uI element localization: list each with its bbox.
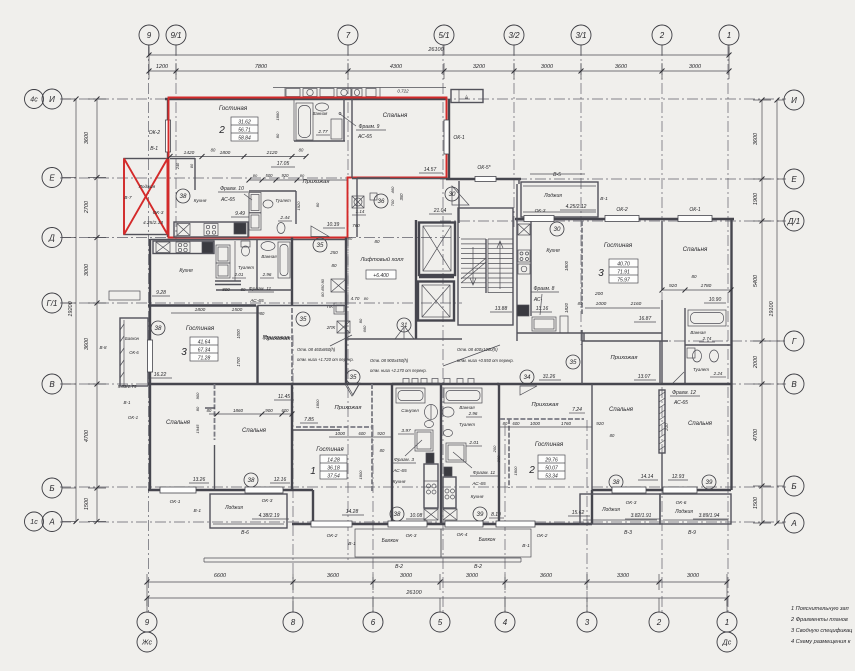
svg-text:80: 80 [300, 173, 305, 178]
svg-text:+6.400: +6.400 [373, 273, 389, 279]
svg-text:14.28: 14.28 [327, 458, 340, 464]
svg-text:200: 200 [594, 291, 603, 297]
double door swing at lift hall bottom [395, 327, 414, 339]
axis bubble Жс [137, 632, 157, 652]
svg-text:9.28: 9.28 [156, 290, 166, 296]
svg-text:38: 38 [180, 193, 187, 200]
leader Фрагм 9 АС-65 [340, 114, 356, 126]
wall below hall apartment 1 extension [292, 429, 340, 431]
cabinet Фрагм 8 at kitchen bottom [532, 317, 556, 331]
svg-text:1000: 1000 [335, 431, 346, 436]
window ОК-1 on Д/1 [678, 216, 712, 222]
svg-text:14.57: 14.57 [424, 167, 437, 173]
svg-text:30: 30 [449, 191, 456, 198]
svg-text:В-6: В-6 [241, 530, 249, 536]
svg-text:В-2: В-2 [395, 564, 403, 570]
svg-text:10.08: 10.08 [410, 513, 423, 519]
partition left of Гостиная 53.34 [508, 419, 510, 488]
svg-text:3/1: 3/1 [575, 31, 586, 40]
svg-text:Кухня: Кухня [194, 198, 207, 204]
svg-text:1860: 1860 [233, 408, 244, 413]
axis bubbles bottom: 9 8 6 5 4 3 2 1 [137, 612, 157, 632]
svg-text:3000: 3000 [541, 64, 554, 70]
svg-text:7.85: 7.85 [304, 417, 314, 423]
svg-text:4300: 4300 [390, 64, 403, 70]
bottom overall dimension line 26100 [147, 597, 727, 599]
svg-text:900: 900 [195, 392, 200, 399]
svg-text:3000: 3000 [84, 263, 90, 276]
apartment 3 bedrooms partition wall [214, 384, 216, 440]
svg-text:35: 35 [300, 316, 307, 323]
elevator shaft 2 with cross [418, 282, 454, 321]
svg-text:800: 800 [222, 287, 230, 292]
vent cross box left stack [424, 509, 438, 520]
dark sink box left stack [426, 453, 434, 463]
svg-text:3600: 3600 [540, 573, 553, 579]
door swing Туалет apartment 2 [311, 226, 329, 237]
svg-text:Фрагм. 11: Фрагм. 11 [249, 286, 272, 292]
svg-text:1: 1 [727, 31, 731, 40]
svg-text:Кухня: Кухня [546, 248, 560, 254]
svg-text:1 Пояснительную зап: 1 Пояснительную зап [791, 606, 849, 612]
svg-text:1200: 1200 [156, 64, 169, 70]
toilet room Туалет of apartment 2 [249, 190, 296, 192]
apartment 2 area table 31.62 56.71 58.84 [231, 117, 258, 141]
svg-text:3600: 3600 [84, 337, 90, 350]
lower ledge strip [204, 557, 521, 559]
svg-text:80: 80 [190, 163, 194, 168]
left segment dimension line 3600 2700 3000 3600 4700 1500 [96, 99, 98, 522]
svg-text:13.16: 13.16 [536, 306, 549, 312]
svg-text:Ванная: Ванная [690, 330, 706, 335]
balcony left Балкон В-8 [120, 318, 148, 386]
svg-text:АС-65: АС-65 [357, 134, 372, 140]
svg-text:80: 80 [211, 148, 216, 153]
stove in kitchen column [518, 250, 530, 262]
vent cross box right stack [443, 509, 457, 520]
axis grid vertical dash-dot lines [148, 45, 150, 612]
bubble 35 and leader [345, 384, 359, 396]
stairs room walls [458, 208, 513, 325]
left overall dimension line 19200 [75, 99, 77, 522]
axis grid horizontal dash-dot lines [60, 98, 786, 100]
svg-text:4.25/2.12: 4.25/2.12 [566, 204, 587, 210]
svg-text:В-5: В-5 [553, 172, 561, 178]
svg-text:1c: 1c [30, 519, 38, 526]
svg-text:14.14: 14.14 [641, 474, 654, 480]
area table 41.64 67.34 71.28 [190, 337, 218, 361]
bottom segment dimension line 6600 3600 3000 3000 3600 3300 3000 [147, 581, 727, 583]
area table 40.70 71.91 75.97 [609, 259, 638, 283]
svg-text:1800: 1800 [195, 307, 206, 313]
apartment 2 bottom (53.34) walls [498, 384, 500, 523]
svg-text:31: 31 [401, 322, 408, 329]
svg-text:Лифтовый холл: Лифтовый холл [359, 256, 404, 263]
axis bubbles left: 4c И Е Д Г/1 В Б А 1c [25, 90, 44, 109]
svg-text:600: 600 [359, 431, 367, 436]
axis bubble Дс [717, 632, 737, 652]
svg-text:2: 2 [656, 618, 662, 627]
windows on Б wall right bedrooms [612, 487, 646, 493]
svg-text:920: 920 [669, 283, 677, 289]
svg-text:В-7: В-7 [124, 195, 132, 200]
svg-text:14.28: 14.28 [346, 509, 359, 515]
vestibule walls right of apartment 2 [446, 178, 475, 180]
apartment 2 red contour [169, 98, 447, 238]
svg-text:9.49: 9.49 [235, 211, 245, 217]
svg-text:6: 6 [371, 618, 376, 627]
svg-text:2.77: 2.77 [317, 129, 328, 135]
svg-text:5400: 5400 [753, 274, 759, 287]
window ОК-1 on right wall of apartment 2 [448, 99, 450, 178]
bubble 36 and duct symbol [352, 196, 364, 208]
windows on Б wall left [160, 487, 196, 493]
svg-text:210: 210 [664, 423, 669, 432]
svg-text:37.54: 37.54 [327, 474, 340, 480]
svg-text:80: 80 [331, 263, 337, 268]
svg-text:ОК-3: ОК-3 [406, 533, 417, 539]
apartment 2 bathroom Ванная walls [293, 99, 295, 141]
svg-text:38: 38 [248, 477, 255, 484]
svg-text:2.01: 2.01 [234, 272, 244, 277]
bottom outer wall on axis Б right part [592, 489, 731, 491]
outer wall on axis Д/1 right section [515, 218, 734, 220]
loggia with red cross (Лоджия 4.25/2.13) [124, 159, 168, 235]
svg-text:58.84: 58.84 [238, 136, 251, 142]
svg-text:Кухня: Кухня [393, 479, 406, 485]
elevator hall left wall [415, 220, 417, 339]
svg-text:2.74: 2.74 [702, 336, 712, 341]
svg-text:отм. низа +0.550 от перекр.: отм. низа +0.550 от перекр. [457, 358, 514, 363]
windows on lower А wall [311, 521, 352, 527]
svg-text:2: 2 [528, 465, 535, 476]
window ОК-2 left outer wall [167, 99, 169, 237]
svg-text:Туалет: Туалет [238, 265, 254, 270]
stairs treads right flight [488, 238, 513, 240]
kitchen counter of apartment 2 along bottom [174, 222, 248, 237]
upper loggia Лоджия 4.25/2.12 right part [521, 182, 598, 217]
svg-text:80: 80 [260, 311, 265, 316]
kitchen counter apartment 3 [153, 241, 214, 254]
dim row 1800 1500 80 inside [171, 312, 260, 314]
apartment 3 bathroom walls [234, 241, 236, 281]
svg-text:Кухня: Кухня [471, 494, 484, 500]
svg-text:Туалет: Туалет [275, 198, 291, 203]
svg-text:3000: 3000 [466, 573, 479, 579]
svg-text:В-1: В-1 [522, 543, 530, 549]
apartment 3 kitchen row below red line [149, 239, 151, 490]
svg-text:ОК-5*: ОК-5* [477, 165, 491, 171]
right outer wall, axis 1 [730, 219, 732, 490]
svg-text:1920: 1920 [296, 201, 301, 211]
svg-text:Прихожая: Прихожая [264, 336, 291, 342]
svg-text:Г: Г [792, 337, 797, 346]
apartment 3 living room Гостиная [148, 304, 256, 306]
wall on axis В across [148, 383, 440, 385]
svg-text:56.71: 56.71 [238, 128, 251, 134]
svg-text:Санузел: Санузел [401, 408, 419, 413]
svg-text:отм. низа +2.170 от перекр.: отм. низа +2.170 от перекр. [370, 368, 427, 373]
svg-text:80: 80 [364, 296, 369, 301]
stairs diagonal break line [461, 258, 486, 279]
svg-text:1500: 1500 [232, 307, 243, 313]
svg-text:АС-65: АС-65 [220, 197, 235, 203]
svg-text:Гостиная: Гостиная [316, 447, 344, 453]
svg-text:Ванная: Ванная [261, 254, 277, 259]
svg-text:Ванная: Ванная [459, 405, 475, 410]
svg-text:1000: 1000 [236, 329, 241, 339]
outer wall on axis И (top wall apartment 2) [165, 98, 446, 100]
svg-text:1700: 1700 [236, 357, 241, 367]
interior dim row 80 500 920 80 above hallway [249, 179, 347, 181]
svg-text:9/1: 9/1 [170, 31, 181, 40]
svg-text:34: 34 [524, 374, 531, 381]
svg-text:ОК-6: ОК-6 [676, 500, 687, 506]
svg-text:1.14: 1.14 [356, 209, 365, 214]
svg-text:13.88: 13.88 [495, 306, 508, 312]
svg-text:80: 80 [374, 239, 380, 244]
vestibule wall at 21.04 [458, 181, 460, 223]
area table 14.28 36.18 37.54 [320, 455, 347, 479]
svg-text:ОК-1: ОК-1 [128, 415, 139, 420]
svg-text:И: И [791, 96, 797, 105]
svg-text:А: А [48, 517, 54, 526]
wall below living room right section [517, 332, 662, 334]
svg-text:80: 80 [610, 433, 615, 438]
svg-text:1880: 1880 [275, 111, 280, 121]
svg-text:ОК-3: ОК-3 [626, 500, 637, 506]
hall 13.07 bottom right section [581, 330, 583, 384]
balcony В-2 left of central band [355, 529, 441, 557]
svg-text:1800: 1800 [564, 260, 569, 271]
svg-text:2160: 2160 [630, 301, 642, 307]
svg-text:3: 3 [598, 268, 604, 279]
toilet apartment 3 [241, 241, 250, 247]
svg-text:2000: 2000 [753, 355, 759, 369]
apartment 1 (37.54) partitions [371, 384, 373, 492]
ledge above И right of axis 5/1 [451, 90, 483, 103]
svg-text:Фрагм. 12: Фрагм. 12 [672, 390, 696, 396]
svg-text:Спальня: Спальня [609, 407, 634, 413]
fridge cross apartment 2 [177, 224, 190, 236]
svg-text:Спальня: Спальня [688, 421, 713, 427]
svg-text:10.39: 10.39 [327, 222, 340, 228]
bathtub left stack [396, 388, 425, 403]
svg-text:39: 39 [706, 479, 713, 486]
svg-text:920: 920 [596, 421, 604, 426]
svg-text:4 Схему размещения к: 4 Схему размещения к [791, 639, 851, 645]
svg-text:4.25/2.13: 4.25/2.13 [143, 220, 163, 226]
svg-text:Балкон: Балкон [479, 537, 496, 543]
axis bubbles right [784, 90, 804, 110]
window ОК-2 on Д/1 [605, 216, 639, 222]
svg-text:8: 8 [291, 618, 296, 627]
svg-text:50.07: 50.07 [545, 466, 558, 472]
kitchen column left stack [424, 464, 438, 508]
svg-text:Гостиная: Гостиная [604, 242, 633, 249]
divider wall between stacks [440, 384, 442, 523]
svg-text:4700: 4700 [753, 428, 759, 441]
svg-text:4c: 4c [30, 97, 38, 104]
fridge cross top [518, 224, 530, 235]
svg-text:Прихожая: Прихожая [335, 405, 362, 411]
svg-text:В-1: В-1 [600, 196, 608, 202]
corridor walls center [347, 238, 349, 306]
svg-text:АС-65: АС-65 [392, 468, 407, 474]
svg-text:3000: 3000 [400, 573, 413, 579]
bathtub in Ванная [296, 103, 313, 140]
svg-text:11.45: 11.45 [278, 394, 290, 400]
stairs treads left flight [461, 238, 486, 240]
fridge cross apartment 3 [156, 242, 170, 253]
svg-text:Лоджия: Лоджия [543, 193, 562, 199]
svg-text:3000: 3000 [689, 64, 702, 70]
svg-text:29.76: 29.76 [544, 458, 558, 464]
svg-text:7800: 7800 [255, 64, 268, 70]
leader Фрагм 12 АС-65 [672, 372, 684, 384]
dim row 80 600 1000 1760 [500, 426, 592, 428]
svg-text:Гостиная: Гостиная [535, 441, 564, 448]
svg-text:36.18: 36.18 [327, 466, 340, 472]
svg-text:В-1: В-1 [348, 541, 356, 547]
svg-text:80: 80 [299, 148, 304, 153]
svg-text:1000: 1000 [530, 421, 541, 426]
svg-text:3 Сводную спецификац: 3 Сводную спецификац [791, 628, 852, 634]
balcony В-2 right of central band [441, 529, 531, 557]
hatched partition wall [659, 390, 665, 453]
svg-text:ОК-1: ОК-1 [453, 135, 465, 141]
svg-text:1780: 1780 [701, 283, 712, 289]
stove apartment 3 [176, 242, 190, 253]
svg-text:ОК-1: ОК-1 [170, 499, 181, 505]
svg-text:75.97: 75.97 [617, 278, 630, 284]
svg-text:660: 660 [362, 325, 367, 332]
svg-text:Отв. 08 400х1000(h): Отв. 08 400х1000(h) [457, 347, 498, 352]
svg-text:Д: Д [48, 233, 55, 242]
svg-text:31.26: 31.26 [543, 374, 556, 380]
svg-text:80: 80 [195, 406, 200, 411]
svg-text:1900: 1900 [753, 192, 759, 205]
partition right of hall apartment 3 [291, 308, 293, 384]
svg-text:19100: 19100 [769, 300, 775, 316]
washing machine right of bath [331, 119, 342, 139]
svg-text:4.70: 4.70 [351, 296, 360, 301]
svg-text:80: 80 [253, 173, 258, 178]
svg-text:3.89/1.94: 3.89/1.94 [699, 513, 720, 519]
svg-text:80: 80 [358, 318, 363, 323]
bubble 35 center near corridor [296, 312, 310, 326]
svg-text:3600: 3600 [327, 573, 340, 579]
svg-text:38: 38 [613, 479, 620, 486]
svg-text:Гостиная: Гостиная [219, 105, 248, 112]
svg-text:3/2: 3/2 [508, 31, 520, 40]
svg-text:1: 1 [310, 466, 316, 477]
apartment 2 kitchen zone Кухня with 38 bubble [176, 189, 190, 203]
svg-text:Балкон: Балкон [382, 538, 399, 544]
svg-text:16.22: 16.22 [154, 372, 167, 378]
svg-text:80: 80 [241, 287, 246, 292]
svg-text:Туалет: Туалет [693, 367, 709, 372]
svg-text:9: 9 [147, 31, 152, 40]
svg-text:13.07: 13.07 [638, 374, 651, 380]
svg-text:ОК-2: ОК-2 [149, 130, 161, 136]
central bathroom stack left (Санузел Фрагм 3) [392, 383, 499, 385]
svg-text:35: 35 [317, 242, 324, 249]
svg-text:ОК-3: ОК-3 [262, 498, 273, 504]
svg-text:Лоджия: Лоджия [224, 505, 243, 511]
svg-text:67.34: 67.34 [198, 348, 211, 354]
svg-text:3200: 3200 [473, 64, 486, 70]
dark sink box right stack [444, 467, 452, 476]
svg-text:А: А [790, 519, 796, 528]
svg-text:41.64: 41.64 [198, 340, 211, 346]
svg-text:2.01: 2.01 [468, 440, 479, 446]
right segment dimension line 3600 1900 5400 2000 4700 1500 [761, 100, 763, 523]
svg-text:Спальня: Спальня [383, 112, 408, 119]
svg-text:19200: 19200 [68, 300, 74, 316]
partition below Прихожая 53.34 [500, 418, 584, 420]
svg-text:Е: Е [49, 173, 55, 182]
svg-text:Б-: Б- [464, 94, 469, 99]
svg-text:80: 80 [691, 274, 697, 279]
svg-text:1945: 1945 [195, 424, 200, 434]
svg-text:2 Фрагменты планов: 2 Фрагменты планов [790, 617, 848, 623]
door swing at entrance 30 [452, 186, 469, 205]
bubble 30 right section kitchen [550, 222, 564, 236]
svg-text:Фрагм. 10: Фрагм. 10 [220, 186, 244, 192]
svg-text:Дс: Дс [722, 640, 732, 647]
svg-text:1800: 1800 [220, 150, 231, 156]
dim row 920 1780 [662, 289, 731, 291]
window ОК-6 in left wall behind balcony [148, 340, 153, 372]
sink right stack [442, 407, 454, 417]
svg-text:Прихожая: Прихожая [611, 355, 638, 361]
svg-text:Кухня: Кухня [179, 268, 193, 274]
svg-text:1800: 1800 [513, 466, 518, 476]
svg-text:ОК-4: ОК-4 [457, 532, 468, 538]
riser shafts ПК boxes at lift hall left wall [331, 279, 346, 292]
svg-text:26100: 26100 [427, 47, 444, 53]
svg-text:Жс: Жс [141, 640, 152, 647]
svg-text:600: 600 [282, 408, 290, 413]
svg-text:80: 80 [207, 408, 212, 413]
cabinet left stack with leader [415, 430, 433, 451]
svg-text:500: 500 [266, 173, 274, 178]
svg-text:Фрагм. 3: Фрагм. 3 [394, 457, 414, 463]
svg-text:В-8: В-8 [99, 345, 107, 350]
wall between apartment 2 hallway and stair block [356, 178, 358, 237]
svg-text:Б: Б [791, 482, 796, 491]
svg-text:В-1: В-1 [123, 400, 131, 405]
bubble 35 right of hall [566, 355, 580, 369]
dim row 1000 600 920 [329, 436, 392, 438]
strip above axis И with fixtures of upper section [273, 87, 446, 89]
svg-text:Спальня: Спальня [242, 428, 267, 434]
svg-text:АС-65: АС-65 [471, 481, 486, 487]
svg-text:ОК-3: ОК-3 [153, 210, 164, 216]
svg-text:3: 3 [181, 347, 187, 358]
stairs center rail [485, 239, 487, 293]
svg-text:1820: 1820 [564, 302, 569, 313]
svg-text:10.90: 10.90 [709, 297, 722, 303]
svg-text:6600: 6600 [214, 573, 227, 579]
svg-text:Е: Е [791, 175, 797, 184]
cabinet column apartment 3 [216, 245, 230, 263]
bedroom Спальня right top [661, 221, 663, 290]
svg-text:80 450 80: 80 450 80 [320, 278, 325, 297]
svg-text:Балкон: Балкон [125, 336, 140, 341]
bath block right Ванная [688, 310, 726, 326]
